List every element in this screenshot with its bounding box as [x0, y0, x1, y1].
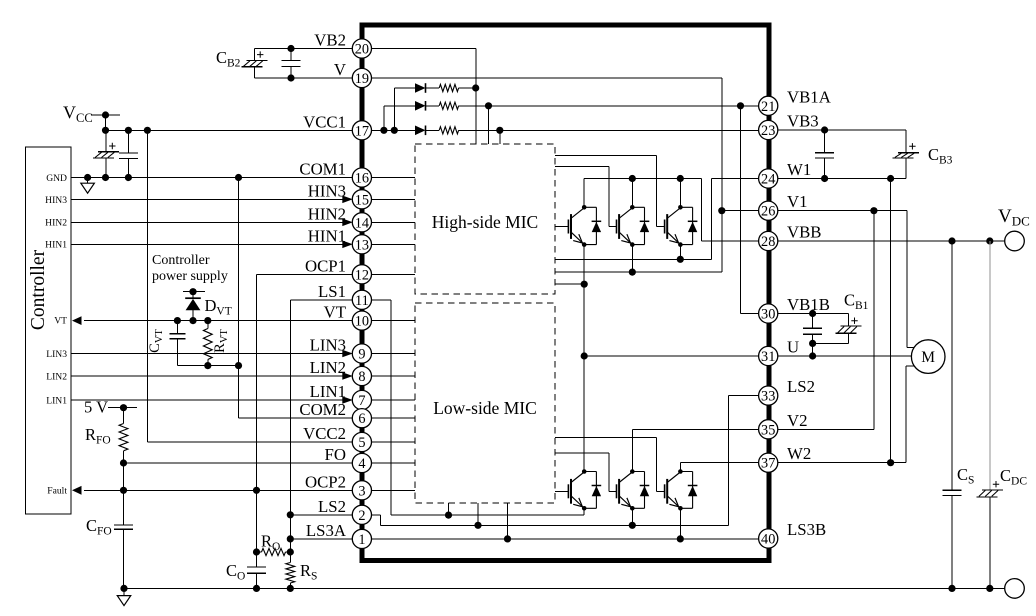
wire CS column upper: [951, 241, 953, 490]
wire V2 row external: [778, 428, 874, 430]
wire LIN1 stub into low-side MIC: [372, 399, 416, 401]
svg-text:LIN2: LIN2: [46, 372, 67, 383]
wire LS2 net internal: [372, 396, 759, 526]
svg-text:24: 24: [761, 172, 775, 188]
svg-text:Controller: Controller: [152, 253, 210, 268]
block Low-side MIC: [415, 303, 555, 503]
svg-text:V1: V1: [787, 192, 808, 211]
svg-text:LS2: LS2: [318, 497, 346, 516]
value label CO: [226, 561, 245, 583]
value label CS: [957, 465, 974, 487]
junction LS2 row node: [287, 511, 294, 518]
svg-text:LIN1: LIN1: [46, 396, 67, 407]
resistor RO: [262, 548, 286, 555]
value label RS: [300, 561, 317, 583]
wire RS bottom lead: [289, 583, 291, 588]
wire HIN2 row: [71, 221, 351, 223]
junction VB3 tap: [496, 127, 503, 134]
transistor low-side IGBT Q5 (V-phase) with freewheel diode: [617, 469, 650, 510]
resistor RFO: [119, 424, 128, 451]
svg-text:HIN1: HIN1: [45, 240, 67, 251]
svg-text:HIN2: HIN2: [45, 218, 67, 229]
junction VCC1 bootstrap dots: [380, 127, 398, 134]
arrowhead HIN2 into pin: [342, 219, 353, 227]
junction VB3 external dots: [821, 126, 828, 133]
capacitor CVT: [169, 334, 185, 339]
transistor high-side IGBT Q1 (U-phase) with freewheel diode: [568, 205, 601, 247]
IC module outline (thick border): [362, 25, 769, 561]
wire DC-minus rail: [124, 587, 1005, 589]
wire OCP1 stub into high-side MIC: [372, 273, 416, 275]
wire CFO top lead: [123, 490, 125, 525]
svg-text:35: 35: [761, 422, 775, 438]
wire D2-R2 link: [426, 105, 440, 107]
diode bootstrap D2: [415, 101, 426, 111]
wire COM2 stub into low-side MIC: [372, 417, 416, 419]
svg-text:3: 3: [358, 483, 365, 499]
wire W2 collector link: [680, 463, 758, 472]
node 5V label: [84, 398, 108, 417]
junction VB1A taps: [485, 102, 744, 109]
resistor bootstrap R1: [439, 84, 458, 91]
wire FO row: [124, 462, 353, 464]
svg-text:M: M: [921, 349, 935, 366]
wire W phase to motor: [906, 366, 914, 463]
svg-text:LIN3: LIN3: [46, 349, 67, 360]
svg-text:Low-side MIC: Low-side MIC: [433, 398, 537, 418]
svg-text:LS3A: LS3A: [306, 521, 346, 540]
wire V phase to motor: [907, 211, 914, 348]
wire HIN3 stub into high-side MIC: [372, 198, 416, 200]
junction VBB external dots: [948, 237, 993, 244]
svg-text:VB2: VB2: [314, 31, 346, 50]
wire V row left: [254, 77, 352, 79]
wire OCP1 sense column: [257, 274, 353, 567]
wire DVT cathode lead: [192, 292, 194, 299]
wire LS1 row to sense column: [290, 300, 352, 563]
wire V2 collector link: [632, 429, 758, 471]
label controller power supply: [152, 253, 228, 284]
capacitor CB3 electrolytic: [893, 143, 919, 158]
svg-text:COM1: COM1: [299, 160, 346, 179]
wire VCC1 internal row: [372, 129, 416, 131]
wire VBB collector rail: [584, 179, 758, 242]
wire R1 to VB2 tap: [459, 87, 476, 89]
resistor bootstrap R3: [439, 127, 458, 134]
wire DVT top stub: [183, 291, 205, 293]
svg-text:OCP2: OCP2: [305, 472, 346, 491]
wire VB2 row: [254, 48, 352, 50]
wire HIN3 row: [71, 198, 351, 200]
svg-text:HIN1: HIN1: [308, 226, 346, 245]
wire high-side gate1 lead: [555, 226, 568, 228]
wire GND symbol stub: [87, 178, 89, 184]
wire CS column lower: [951, 495, 953, 588]
diode bootstrap D1: [415, 83, 426, 93]
wire LIN3 row: [71, 353, 351, 355]
wire LS3A row left: [290, 538, 352, 540]
wire VT stub into low-side MIC: [372, 320, 416, 322]
node VDC label: [998, 206, 1030, 229]
svg-text:LS3B: LS3B: [787, 520, 826, 539]
svg-text:14: 14: [355, 215, 369, 231]
wire CB2 ceramic leads: [290, 49, 292, 79]
svg-text:V: V: [334, 60, 346, 79]
wire VB3 tap into MIC: [499, 130, 501, 144]
junction CB2 dots: [287, 45, 294, 82]
diode DVT: [185, 298, 201, 310]
svg-text:Fault: Fault: [47, 486, 67, 497]
svg-text:LIN2: LIN2: [310, 358, 346, 377]
svg-text:1: 1: [358, 532, 365, 548]
wire LIN3 stub into low-side MIC: [372, 353, 416, 355]
wire bootstrap row2 lead: [384, 106, 415, 131]
wire LIN2 stub into low-side MIC: [372, 375, 416, 377]
wire LIN1 row: [71, 399, 351, 401]
svg-text:9: 9: [358, 347, 365, 363]
svg-text:W1: W1: [787, 160, 811, 179]
IC right pin name labels: [787, 87, 831, 539]
node DVT top: [189, 288, 196, 295]
motor M label: [921, 349, 935, 366]
capacitor CB1 electrolytic: [836, 318, 862, 334]
svg-text:11: 11: [355, 293, 369, 309]
svg-text:40: 40: [761, 532, 775, 548]
wire fault column: [123, 463, 125, 490]
svg-text:19: 19: [355, 71, 369, 87]
svg-text:10: 10: [355, 314, 369, 330]
wire COM1 to COM2 column: [239, 178, 353, 419]
capacitor CB2 ceramic: [282, 61, 301, 67]
svg-text:VCC1: VCC1: [303, 112, 346, 131]
junction LS3 rail dots: [504, 535, 684, 542]
value label RVT: [212, 329, 230, 353]
junction LS2 rail dots: [474, 522, 636, 529]
junction V1 external dot: [870, 207, 877, 214]
junction U rail dot: [581, 281, 588, 288]
svg-text:13: 13: [355, 237, 369, 253]
controller pin labels: [45, 173, 67, 497]
wire OCP2 stub into low-side MIC: [372, 489, 416, 491]
controller block: [26, 147, 72, 514]
svg-text:power supply: power supply: [152, 269, 228, 284]
junction VT cap rail dots: [204, 362, 211, 369]
junction DC-minus rail dots: [120, 585, 993, 592]
wire VB1A-VB1B column: [741, 106, 759, 314]
ground (logic): [81, 183, 95, 193]
svg-text:30: 30: [761, 307, 775, 323]
svg-text:V2: V2: [787, 411, 808, 430]
svg-text:12: 12: [355, 267, 369, 283]
wire R2 to VB1A row: [459, 105, 759, 107]
wire V internal row: [372, 78, 722, 211]
wire VCC1 rail to pin 17: [106, 129, 353, 131]
wire CB1 ceramic leads: [812, 314, 814, 344]
wire W2 row external: [778, 462, 906, 464]
controller block label: [28, 249, 49, 330]
wire U emitter rail: [555, 245, 584, 285]
wire VB1A tap into MIC: [488, 106, 490, 144]
capacitor CFO: [114, 525, 133, 529]
resistor RVT: [203, 329, 212, 360]
wire VCC ceramic leads: [127, 130, 129, 177]
svg-text:W2: W2: [787, 444, 811, 463]
junction VCC1 rail dots: [102, 127, 151, 134]
junction 5V stub: [120, 404, 127, 411]
wire LS1 net: [372, 300, 585, 515]
wire 5V stub: [108, 407, 137, 409]
capacitor CB3 ceramic: [815, 153, 834, 158]
arrowhead HIN1 into pin: [342, 241, 353, 249]
svg-text:High-side MIC: High-side MIC: [432, 212, 538, 232]
wire CDC column upper: [989, 241, 991, 490]
junction OCP2 row dots: [253, 487, 260, 494]
terminal VDC negative: [1005, 579, 1025, 599]
svg-text:GND: GND: [46, 173, 67, 184]
svg-text:COM2: COM2: [299, 400, 346, 419]
junction W2 external dot: [887, 459, 894, 466]
wire LIN2 row: [71, 375, 351, 377]
junction U row dot: [581, 352, 588, 359]
wire CDC column lower: [989, 497, 991, 589]
arrowhead LIN1 into pin: [342, 396, 353, 404]
wire CFO bottom lead: [123, 529, 125, 588]
transistor high-side IGBT Q3 (W-phase) with freewheel diode: [665, 205, 698, 247]
value label RO: [261, 532, 280, 554]
wire D3-R3 link: [426, 129, 440, 131]
ground (power): [117, 596, 131, 606]
node VCC label: [63, 103, 93, 126]
block High-side MIC: [415, 144, 555, 294]
resistor RS: [286, 563, 295, 584]
wire HIN1 row: [71, 243, 351, 245]
svg-text:VT: VT: [54, 316, 67, 327]
diode bootstrap D3: [415, 126, 426, 136]
wire ground stub: [123, 588, 125, 595]
terminal VDC positive: [1005, 231, 1025, 251]
svg-text:Controller: Controller: [28, 249, 49, 330]
wire GND-COM1 row: [71, 177, 352, 179]
wire Fault-OCP2 row: [84, 489, 352, 491]
wire U row external: [778, 355, 912, 357]
junction LS1 rail dot: [445, 511, 452, 518]
wire FO stub into low-side MIC: [372, 462, 416, 464]
svg-text:VB3: VB3: [787, 112, 819, 131]
value label CB1: [844, 291, 869, 313]
svg-text:33: 33: [761, 389, 775, 405]
svg-text:5: 5: [358, 435, 365, 451]
svg-text:HIN3: HIN3: [45, 195, 67, 206]
junction V1 rail dots: [629, 207, 726, 276]
svg-text:FO: FO: [325, 445, 346, 464]
junction fault row node: [120, 487, 127, 494]
IC left pin circles with numbers: [352, 39, 371, 549]
wire W1 emitter rail: [555, 179, 759, 260]
wire VB2 internal row: [372, 49, 477, 145]
IC left pin name labels: [299, 31, 346, 540]
wire bootstrap row1 lead: [394, 88, 415, 130]
wire V1 row external: [778, 210, 907, 212]
wire RVT leads: [207, 321, 209, 366]
junction LS3A row node: [287, 535, 294, 542]
wire VT row: [84, 320, 352, 322]
svg-text:15: 15: [355, 192, 369, 208]
wire RFO bottom lead: [123, 451, 125, 463]
svg-text:HIN3: HIN3: [308, 181, 346, 200]
svg-text:28: 28: [761, 234, 775, 250]
IC right pin circles with numbers: [759, 96, 778, 548]
capacitor VCC ceramic: [119, 153, 138, 158]
capacitor CB1 ceramic: [803, 328, 822, 334]
wire RFO top lead: [123, 408, 125, 424]
wire VB3 row external: [778, 129, 906, 131]
svg-text:VT: VT: [324, 303, 346, 322]
wire W1 row external: [778, 178, 906, 180]
wire CVT leads: [176, 321, 178, 366]
svg-text:2: 2: [358, 508, 365, 524]
wire high-side gate3 route: [555, 155, 665, 226]
wire LS2 row to sense column: [290, 514, 352, 516]
wire low-side gate1 lead: [555, 490, 568, 492]
wire CB3 ceramic leads: [824, 130, 826, 179]
wire VT cap common rail: [177, 365, 238, 367]
wire HIN1 stub into high-side MIC: [372, 243, 416, 245]
wire DVT anode lead: [192, 310, 194, 320]
arrowhead LIN3 into pin: [342, 350, 353, 358]
junction GND row dots: [84, 174, 242, 181]
junction VBB rail dots: [629, 175, 684, 182]
wire R3 to VB3 row: [459, 129, 759, 131]
junction W1 rail dot: [677, 256, 684, 263]
svg-text:LS2: LS2: [787, 377, 815, 396]
svg-text:VB1A: VB1A: [787, 87, 831, 106]
svg-text:VCC2: VCC2: [303, 424, 346, 443]
svg-text:LIN1: LIN1: [310, 382, 346, 401]
capacitor CS: [943, 490, 962, 495]
value label DVT: [205, 296, 232, 318]
wire CB2 electrolytic leads: [253, 49, 255, 79]
junction CB1 common dots: [809, 340, 816, 360]
arrowhead LIN2 into pin: [342, 372, 353, 380]
wire low-side gate2 route: [555, 453, 617, 491]
wire W1-W2 column: [890, 179, 892, 463]
svg-text:21: 21: [761, 99, 775, 115]
junction VCC stub: [102, 111, 109, 118]
wire CB1 electrolytic leads: [848, 314, 850, 344]
svg-text:OCP1: OCP1: [305, 256, 346, 275]
motor M: [911, 340, 945, 374]
svg-text:6: 6: [358, 411, 365, 427]
block Low-side MIC label: [433, 398, 537, 418]
junction RO end dots: [253, 548, 294, 555]
svg-text:17: 17: [355, 123, 369, 139]
wire LS3 rail: [372, 503, 759, 539]
wire VCC stub: [91, 114, 120, 116]
resistor bootstrap R2: [439, 102, 458, 109]
value label CFO: [86, 516, 112, 538]
svg-text:7: 7: [358, 393, 365, 409]
capacitor CDC electrolytic: [977, 481, 1003, 497]
wire HIN2 stub into high-side MIC: [372, 221, 416, 223]
wire V1-V2 column: [873, 211, 875, 430]
svg-text:26: 26: [761, 204, 775, 220]
capacitor VCC electrolytic: [93, 143, 119, 158]
capacitor CO: [247, 567, 266, 573]
value label RFO: [85, 425, 111, 447]
svg-text:LS1: LS1: [318, 282, 346, 301]
value label CB2: [216, 48, 241, 70]
transistor low-side IGBT Q6 (W-phase) with freewheel diode: [665, 469, 698, 510]
wire OCP1 column lower lead: [256, 573, 258, 588]
wire COM1 stub into high-side MIC: [372, 177, 416, 179]
svg-text:37: 37: [761, 456, 775, 472]
wire high-side gate2 route: [555, 167, 617, 227]
junction VT row dots: [174, 317, 212, 324]
arrowhead VT into controller: [72, 316, 82, 325]
wire VCC electrolytic leads: [105, 130, 107, 177]
capacitor CB2 electrolytic: [241, 51, 267, 66]
wire VB1B row external: [778, 313, 849, 315]
transistor high-side IGBT Q2 (V-phase) with freewheel diode: [617, 205, 650, 247]
svg-text:U: U: [787, 338, 799, 357]
junction RFO-FO node: [120, 459, 127, 466]
svg-text:4: 4: [358, 456, 365, 472]
wire V1 emitter rail: [555, 211, 759, 272]
svg-text:31: 31: [761, 349, 775, 365]
junction VB2 tap: [472, 84, 479, 91]
wire CB1 common: [813, 343, 849, 356]
svg-text:20: 20: [355, 42, 369, 58]
value label CVT: [147, 329, 165, 353]
block High-side MIC label: [432, 212, 538, 232]
junction VB1B external dots: [809, 310, 816, 317]
wire low-side gate3 route: [555, 437, 665, 491]
svg-text:5 V: 5 V: [84, 398, 108, 417]
svg-text:HIN2: HIN2: [308, 204, 346, 223]
value label CB3: [928, 145, 953, 167]
svg-text:LIN3: LIN3: [310, 336, 346, 355]
wire VCC to VCC1 rail: [105, 115, 107, 130]
svg-text:16: 16: [355, 171, 369, 187]
svg-text:23: 23: [761, 123, 775, 139]
svg-text:VBB: VBB: [787, 223, 822, 242]
wire VCC2 stub into low-side MIC: [372, 441, 416, 443]
wire CB3 electrolytic leads: [905, 130, 907, 179]
arrowhead Fault into controller: [72, 486, 82, 495]
wire VBB row external: [778, 240, 1005, 242]
wire VCC1 to VCC2 column: [147, 130, 352, 442]
value label CDC: [1000, 466, 1027, 488]
svg-text:VB1B: VB1B: [787, 295, 830, 314]
transistor low-side IGBT Q4 (U-phase) with freewheel diode: [568, 469, 601, 510]
junction W1 external dots: [821, 175, 894, 182]
svg-text:8: 8: [358, 369, 365, 385]
junction COM column at VT cap rail: [235, 362, 242, 369]
arrowhead HIN3 into pin: [342, 196, 353, 204]
wire D1-R1 link: [426, 87, 440, 89]
wire RO leads: [257, 551, 291, 553]
wire U column: [584, 284, 758, 471]
